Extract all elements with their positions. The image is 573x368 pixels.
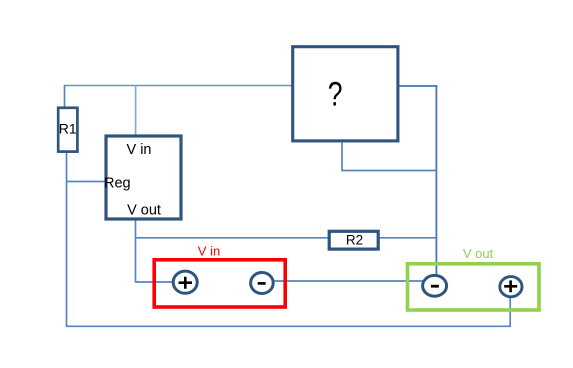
wire — [342, 142, 437, 171]
terminal + symbol — [179, 277, 192, 289]
unknown block ? — [293, 47, 398, 141]
red input terminal box V in — [154, 260, 285, 307]
svg-text:V out: V out — [463, 246, 494, 261]
svg-text:V in: V in — [127, 142, 152, 158]
wire — [136, 237, 438, 239]
svg-text:R2: R2 — [346, 233, 363, 248]
svg-text:V in: V in — [198, 244, 220, 259]
resistor R1 — [58, 108, 77, 152]
wire — [435, 85, 437, 276]
terminal - symbol — [258, 282, 266, 285]
wire — [135, 281, 174, 283]
wire — [66, 181, 105, 183]
svg-text:R1: R1 — [59, 121, 77, 137]
svg-text:Reg: Reg — [104, 176, 131, 192]
wire — [64, 85, 66, 107]
regulator U1 box — [106, 136, 181, 219]
wire — [67, 152, 511, 326]
terminal + (input positive) — [173, 271, 197, 293]
green output terminal box V out — [408, 264, 540, 310]
wire — [135, 220, 137, 283]
terminal + (output positive) — [500, 277, 522, 297]
terminal - (output negative) — [423, 275, 447, 296]
wire — [509, 298, 511, 327]
svg-text:V out: V out — [127, 203, 161, 219]
terminal + symbol — [504, 280, 517, 292]
terminal - (input negative) — [251, 273, 274, 294]
wire — [135, 85, 137, 135]
wire — [398, 85, 437, 87]
svg-text:?: ? — [328, 75, 343, 113]
terminal - symbol — [431, 285, 439, 288]
wire — [274, 280, 423, 282]
resistor R2 — [329, 231, 378, 249]
wire — [64, 85, 292, 87]
